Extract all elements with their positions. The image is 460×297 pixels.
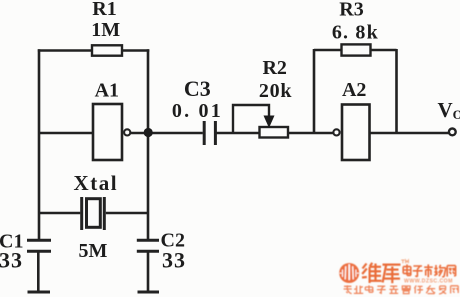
wire: R3 right lead [371, 49, 397, 52]
terminal bar below C2 [138, 291, 160, 294]
capacitor C1 [27, 240, 51, 251]
svg-text:1M: 1M [91, 19, 120, 41]
svg-text:6. 8k: 6. 8k [332, 22, 379, 44]
wire: R1 right lead [122, 49, 149, 52]
wiper arrow of R2 [264, 116, 275, 129]
resistor R1 [92, 45, 122, 55]
svg-text:33: 33 [0, 248, 23, 273]
watermark tagline characters 专业电子元器件交易网站 [344, 285, 459, 294]
watermark subtitle character 市 [424, 264, 433, 277]
svg-text:A1: A1 [95, 80, 119, 102]
svg-text:33: 33 [162, 248, 186, 273]
svg-text:A2: A2 [342, 79, 366, 101]
watermark subtitle character 子 [413, 266, 423, 277]
svg-text:WWW.DZSC.COM: WWW.DZSC.COM [404, 278, 453, 284]
svg-text:Xtal: Xtal [74, 171, 119, 195]
wire: R3 right leg [395, 49, 398, 134]
svg-text:R2: R2 [262, 57, 286, 79]
wire: R2 wiper bracket [233, 105, 269, 133]
wire: A2 output to Vo [370, 132, 449, 135]
watermark subtitle character 电 [403, 264, 411, 275]
inverter bubble of A1 [124, 129, 130, 135]
wire: A1 input lead [39, 132, 93, 135]
watermark subtitle character 场 [434, 265, 446, 277]
svg-text:20k: 20k [259, 80, 293, 102]
node: junction at A1 output [144, 128, 153, 137]
capacitor C3 [204, 121, 215, 145]
wire: C2 bottom lead [147, 252, 150, 292]
watermark TM mark [401, 260, 408, 263]
wire: crystal right lead [106, 212, 148, 215]
svg-text:VO: VO [438, 98, 460, 122]
wire: R2 to A2 input [288, 132, 333, 135]
wire: right rail (R1 right to C2) [147, 49, 150, 241]
wire: R3 left leg [313, 49, 316, 134]
svg-text:5M: 5M [79, 240, 108, 262]
potentiometer R2 body [260, 127, 289, 138]
svg-text:R3: R3 [339, 0, 363, 21]
wire: R1 left lead [38, 49, 92, 52]
inverter bubble of A2 [333, 129, 339, 135]
wire: R3 left lead [314, 49, 342, 52]
terminal bar below C1 [28, 291, 51, 294]
watermark brand character 库 [383, 265, 401, 284]
wire: left feedback rail [38, 49, 41, 241]
watermark subtitle character 网 [447, 266, 455, 277]
op-amp A2 [342, 105, 370, 161]
wire: A1 output to C3 [131, 132, 203, 135]
capacitor C2 [137, 240, 159, 251]
watermark logo circle icon [339, 263, 359, 283]
terminal Vo [449, 129, 456, 136]
crystal Xtal [82, 197, 105, 230]
svg-text:C3: C3 [184, 76, 211, 101]
watermark brand character 维 [362, 263, 382, 283]
resistor R3 [342, 44, 371, 55]
wire: C3 to R2 [217, 132, 260, 135]
wire: crystal left lead [39, 212, 80, 215]
op-amp A1 [93, 104, 122, 160]
svg-text:R1: R1 [92, 0, 116, 20]
svg-text:0. 01: 0. 01 [172, 100, 223, 122]
wire: C1 bottom lead [37, 252, 40, 292]
